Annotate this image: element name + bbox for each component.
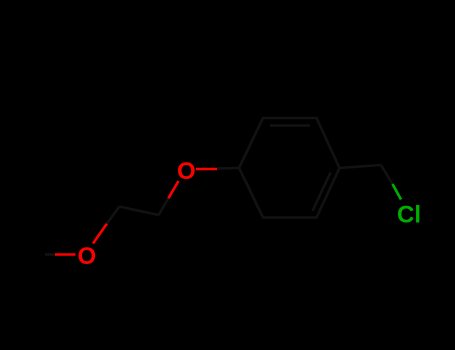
double bond inner line left (LB-L) (246, 182, 259, 209)
svg-text:O: O (177, 158, 196, 185)
bond CH2-CH2 (V1-V2) (119, 207, 158, 216)
bond V2 to O2, dark half (107, 207, 120, 224)
svg-text:Cl: Cl (397, 202, 421, 229)
benzene ring C6 outline (239, 118, 340, 218)
bond CH2 to Cl, dark half (381, 165, 393, 184)
bond O1 to ring L, dark half (217, 167, 239, 170)
bond V2 to O2, red half (93, 224, 107, 244)
double bond inner line top (LT-RT) (270, 124, 310, 127)
svg-text:O: O (78, 243, 97, 270)
bond O1 to CH2 V1, red half (168, 181, 178, 198)
bond ring R to CH2Cl carbon (340, 165, 382, 168)
bond CH2 to Cl, green half (393, 184, 402, 200)
double bond inner line right (R-RB) (313, 173, 331, 212)
bond O1 to ring L, red half (196, 168, 217, 171)
bond O2 to CH3, dark tip (45, 253, 55, 256)
bond O1 to CH2 V1, dark half (159, 198, 169, 215)
bond O2 to CH3, red half (55, 253, 76, 256)
